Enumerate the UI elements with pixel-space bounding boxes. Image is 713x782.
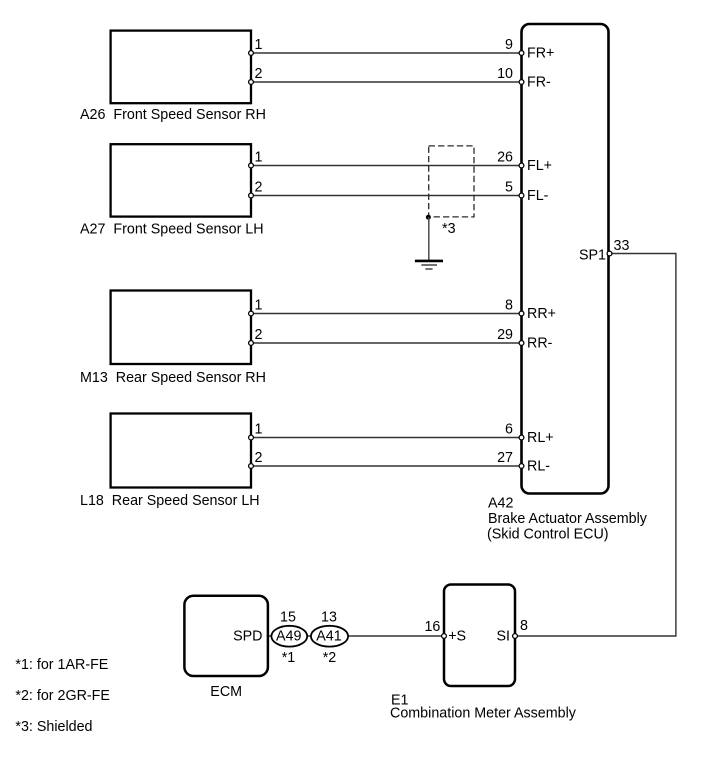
box E1 Combination Meter Assembly (444, 585, 515, 687)
pin 1 L18 (249, 435, 254, 440)
svg-text:FR-: FR- (527, 75, 551, 91)
svg-text:A41: A41 (316, 629, 341, 645)
pin 27 RL- (519, 464, 524, 469)
svg-text:Combination Meter Assembly: Combination Meter Assembly (390, 706, 577, 722)
pin 2 A27 (249, 193, 254, 198)
svg-text:M13 Rear Speed Sensor RH: M13 Rear Speed Sensor RH (80, 370, 266, 386)
pin 2 M13 (249, 341, 254, 346)
pin 26 FL+ (519, 163, 524, 168)
svg-text:27: 27 (497, 450, 513, 466)
wire FR+ (A26 pin 1 to A42 pin 9) (251, 52, 522, 54)
svg-text:8: 8 (505, 298, 513, 314)
svg-text:8: 8 (520, 618, 528, 634)
svg-text:26: 26 (497, 150, 513, 166)
svg-text:RR-: RR- (527, 336, 553, 352)
pin 5 FL- (519, 193, 524, 198)
svg-text:*2: *2 (323, 650, 337, 666)
svg-text:A49: A49 (276, 629, 301, 645)
wire FR- (A26 pin 2 to A42 pin 10) (251, 81, 522, 83)
svg-text:2: 2 (255, 66, 263, 82)
box A27 Front Speed Sensor LH (111, 144, 251, 216)
svg-text:15: 15 (280, 609, 296, 625)
box A42 Brake Actuator Assembly (Skid Control ECU) (522, 24, 609, 494)
svg-text:1: 1 (255, 298, 263, 314)
svg-text:13: 13 (321, 609, 337, 625)
pin 1 M13 (249, 311, 254, 316)
svg-text:SPD: SPD (233, 629, 262, 645)
pin 8 RR+ (519, 311, 524, 316)
connector A49 (271, 626, 307, 647)
svg-text:9: 9 (505, 37, 513, 53)
svg-text:16: 16 (424, 619, 440, 635)
svg-text:FR+: FR+ (527, 46, 554, 62)
pin 8 SI (513, 634, 518, 639)
svg-text:A26 Front Speed Sensor RH: A26 Front Speed Sensor RH (80, 107, 266, 123)
svg-text:RR+: RR+ (527, 306, 556, 322)
svg-text:*1: for 1AR-FE: *1: for 1AR-FE (15, 657, 108, 673)
wire SP1 to SI (A42 pin 33 right, down, to E1 pin 8) (515, 254, 676, 637)
box ECM (184, 596, 268, 676)
svg-text:(Skid Control ECU): (Skid Control ECU) (487, 527, 609, 543)
svg-text:1: 1 (255, 150, 263, 166)
ground symbol (415, 261, 443, 269)
pin 6 RL+ (519, 435, 524, 440)
svg-text:*3: Shielded: *3: Shielded (15, 719, 92, 735)
pin 2 L18 (249, 464, 254, 469)
pin 10 FR- (519, 80, 524, 85)
wire FL+ (A27 pin 1 to A42 pin 26) (251, 165, 522, 167)
svg-text:6: 6 (505, 422, 513, 438)
svg-text:RL+: RL+ (527, 430, 554, 446)
svg-text:*2: for 2GR-FE: *2: for 2GR-FE (15, 688, 110, 704)
wire RR- (M13 pin 2 to A42 pin 29) (251, 342, 522, 344)
svg-text:FL+: FL+ (527, 158, 552, 174)
label A42 Brake Actuator Assembly (487, 496, 648, 543)
svg-text:ECM: ECM (210, 684, 242, 700)
shield dashed box *3 (429, 146, 474, 217)
svg-text:*1: *1 (282, 650, 296, 666)
shield junction dot (426, 215, 431, 220)
svg-text:SP1: SP1 (579, 247, 606, 263)
svg-text:*3: *3 (442, 221, 456, 237)
svg-text:SI: SI (496, 629, 510, 645)
svg-text:FL-: FL- (527, 188, 549, 204)
pin 29 RR- (519, 341, 524, 346)
svg-text:A42: A42 (488, 496, 513, 512)
svg-text:Brake Actuator Assembly: Brake Actuator Assembly (488, 511, 648, 527)
wire FL- (A27 pin 2 to A42 pin 5) (251, 195, 522, 197)
wire RL+ (L18 pin 1 to A42 pin 6) (251, 437, 522, 439)
svg-text:1: 1 (255, 422, 263, 438)
connector A41 (311, 626, 348, 647)
wire ECM SPD to E1 +S (through A49/A41 connectors) (268, 635, 444, 637)
pin 9 FR+ (519, 51, 524, 56)
pin 2 A26 (249, 80, 254, 85)
svg-text:33: 33 (614, 238, 630, 254)
box L18 Rear Speed Sensor LH (111, 414, 251, 488)
svg-text:2: 2 (255, 327, 263, 343)
svg-text:RL-: RL- (527, 459, 550, 475)
svg-text:+S: +S (448, 629, 466, 645)
svg-text:2: 2 (255, 180, 263, 196)
pin 33 SP1 (607, 251, 612, 256)
label E1 Combination Meter Assembly (390, 693, 577, 722)
svg-text:5: 5 (505, 180, 513, 196)
box M13 Rear Speed Sensor RH (111, 291, 251, 365)
svg-text:29: 29 (497, 327, 513, 343)
pin 1 A26 (249, 51, 254, 56)
pin 16 +S (442, 634, 447, 639)
ground wire (428, 217, 430, 260)
wire RL- (L18 pin 2 to A42 pin 27) (251, 465, 522, 467)
box A26 Front Speed Sensor RH (111, 31, 251, 104)
svg-text:10: 10 (497, 66, 513, 82)
pin 1 A27 (249, 163, 254, 168)
svg-text:2: 2 (255, 450, 263, 466)
svg-text:1: 1 (255, 37, 263, 53)
svg-text:L18 Rear Speed Sensor LH: L18 Rear Speed Sensor LH (80, 493, 260, 509)
wire RR+ (M13 pin 1 to A42 pin 8) (251, 313, 522, 315)
svg-text:A27 Front Speed Sensor LH: A27 Front Speed Sensor LH (80, 222, 264, 238)
